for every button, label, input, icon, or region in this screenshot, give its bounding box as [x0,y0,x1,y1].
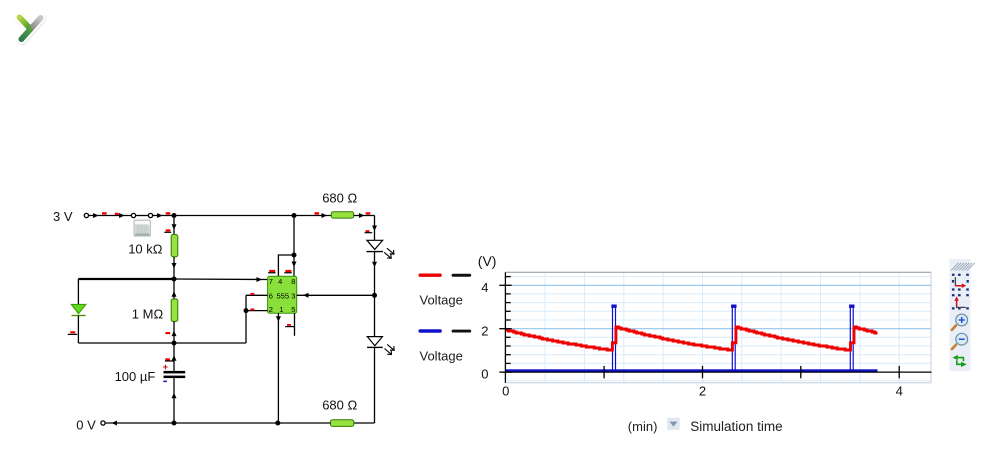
wire node D to pin 7 of U1 [174,278,268,281]
wire node E to riser bottom [174,342,246,344]
graph y-axis [504,272,506,383]
wire top rail from node A to node B [174,215,294,217]
wire LED D1 to bottom corner [77,316,79,344]
wire pin 8 of U1 up to node B on 3V rail [293,216,295,256]
svg-text:0 V: 0 V [76,418,96,433]
Yenka logo [20,17,42,40]
node G2 junction (ground rail / pin1) [275,421,280,426]
LED D2 (off) [367,240,394,258]
svg-text:Voltage: Voltage [420,293,463,308]
terminal 3 V positive supply [84,213,88,217]
svg-text:+: + [163,362,168,372]
svg-text:3: 3 [291,291,295,300]
wire LED branch bottom to node E [78,342,174,344]
wire top rail from switch to node A [153,215,174,217]
svg-text:8: 8 [291,277,295,286]
svg-text:100 µF: 100 µF [115,369,156,384]
graph toolbar background [950,259,971,371]
switch S1 (closed) [131,213,135,217]
wire pin 3 of U1 to node C (output) [297,294,375,296]
wire pin 6 of U1 to trigger/threshold riser [246,294,268,296]
svg-text:4: 4 [896,384,903,399]
wire from LED D2 to node C [374,252,376,296]
wire pin 2 of U1 to node H [246,310,268,312]
wire node D to R2 [173,279,175,299]
node G1 junction (ground rail / capacitor) [172,421,177,426]
wire top rail from 3V terminal to switch [89,215,132,217]
svg-text:2: 2 [269,305,273,314]
svg-text:Voltage: Voltage [420,348,463,363]
legend red trace swatch [419,274,442,277]
toolbar zoom-out icon [952,333,968,349]
wire node E down to capacitor C1 [173,343,175,371]
resistor R3 680 ohm (top) [331,212,353,218]
svg-text:0: 0 [481,367,488,382]
wire capacitor C1 to ground rail node G1 [173,378,175,423]
riser wire pin6 to node H [245,295,247,343]
svg-text:Simulation time: Simulation time [690,419,782,434]
toolbar hatch icon [951,263,975,271]
terminal 0 V [101,421,105,425]
thick wire node D to LED D1 branch [78,278,174,280]
svg-text:1: 1 [279,305,283,314]
wire top rail from node B to 680 ohm resistor [294,215,331,217]
svg-text:2: 2 [481,324,488,339]
capacitor C1 100 uF [163,362,185,382]
LED D3 (off) [367,337,394,355]
node B junction (rail / pin8 / 680 top) [292,213,297,218]
node D junction (discharge node) [172,277,177,282]
svg-text:3 V: 3 V [53,209,73,224]
svg-text:2: 2 [699,384,706,399]
node E junction (threshold node) [172,341,177,346]
toolbar axes-tool icon (selected) [952,274,969,291]
svg-text:(min): (min) [628,419,658,434]
resistor R4 680 ohm (bottom) [331,420,354,427]
wire pin 4 of U1 up and right to node F [278,255,294,276]
svg-text:4: 4 [278,277,282,286]
svg-text:0: 0 [502,384,509,399]
svg-text:555: 555 [277,291,290,300]
resistor R2 1 megohm [171,299,178,322]
node C junction (output / LED chain) [372,293,377,298]
wire R2 to node E [173,322,175,344]
graph minor gridlines [506,272,932,383]
svg-text:10 kΩ: 10 kΩ [128,241,163,256]
legend blue trace swatch [419,329,442,332]
svg-text:4: 4 [481,280,488,295]
toolbar axes-tool icon 2 [952,294,969,309]
ground rail wire node G2 to node G1 [174,422,278,424]
graph frame [506,272,932,383]
svg-text:6: 6 [269,291,273,300]
graph major gridlines (2V and 4V) [506,285,932,328]
LED D1 (lit green) [71,304,86,315]
red voltage trace (capacitor) [506,327,878,350]
svg-text:7: 7 [269,277,273,286]
LED D1 branch: wire down to LED [77,279,79,304]
node H junction (pin2 tap) [244,308,249,313]
wire node A down to R1 [173,216,175,235]
wire bottom right corner to R4 [354,422,375,424]
node A junction (3V rail / 10k) [172,213,177,218]
toolbar autoscale/loop icon [953,355,967,367]
svg-text:5: 5 [291,305,295,314]
blue voltage trace (output) [506,305,878,373]
IC U1 555 timer [268,276,297,313]
wire R1 to node D [173,257,175,279]
wire from R3 to top-right corner [354,215,375,217]
resistor R1 10 kilohm [171,235,178,257]
axis dropdown button [667,418,679,430]
svg-text:(V): (V) [478,253,497,269]
toolbar zoom-in icon [952,314,968,330]
wire from LED D3 down to bottom-right corner [374,347,376,423]
svg-text:680 Ω: 680 Ω [322,397,357,412]
wire from node C down to LED D3 [374,295,376,336]
wire right branch corner down to LED D2 [374,216,376,241]
graph x-axis [503,371,932,373]
ground rail wire node G1 to 0V terminal [105,422,174,424]
node F junction (pin4/pin8 tie) [292,253,297,258]
svg-text:680 Ω: 680 Ω [322,190,357,205]
svg-text:1 MΩ: 1 MΩ [132,306,164,321]
wire pin 1 of U1 down to ground rail node G2 [277,313,279,423]
pin 5 stub of U1 (unconnected) [294,313,296,336]
graph panel background [506,272,932,383]
wire R4 to node G2 [278,422,331,424]
